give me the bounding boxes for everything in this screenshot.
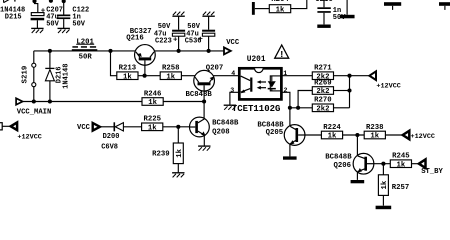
wire: VCC port to D200 <box>100 126 114 128</box>
capacitor C122 1n 50V <box>57 15 70 17</box>
wire: Q206 base to R245 <box>374 163 390 165</box>
svg-text:C6V8: C6V8 <box>101 144 118 152</box>
U201 phototransistor (left side) <box>250 78 252 92</box>
wire: R270 row <box>290 107 312 109</box>
wire: Q205 emitter to ground <box>289 144 291 156</box>
wire: U201 pin 1 to R271 <box>281 75 312 77</box>
svg-text:R257: R257 <box>392 184 410 192</box>
wire: terminal to R264 <box>255 8 269 10</box>
ground (Q208) <box>198 145 210 147</box>
svg-text:Q208: Q208 <box>212 129 230 137</box>
svg-text:R239: R239 <box>152 151 170 159</box>
wire: right vertical R271-R269-R270 <box>349 76 351 108</box>
svg-text:1k: 1k <box>176 148 184 157</box>
svg-text:1k: 1k <box>397 161 406 169</box>
node: Q207 base / R246 / Q208 collector <box>202 99 206 103</box>
svg-text:1k: 1k <box>148 99 157 107</box>
terminal bar (left of R264) <box>252 2 255 15</box>
resistor R245 <box>390 160 411 168</box>
svg-text:D215: D215 <box>5 14 22 22</box>
ground (U201 pin 3) <box>224 104 236 106</box>
transistor Q206 BC848B (NPN, mirrored) <box>353 153 374 174</box>
ground (C207) <box>31 27 43 29</box>
ground above C223 <box>172 15 184 17</box>
wire: R271 to +12VCC port <box>334 75 370 77</box>
ground (R239) <box>172 172 184 174</box>
node: Q206 base / R245 / R257 <box>381 162 385 166</box>
svg-text:R246: R246 <box>144 90 162 98</box>
svg-text:S219: S219 <box>22 66 30 84</box>
svg-text:1k: 1k <box>276 6 285 14</box>
svg-text:+: + <box>173 36 178 44</box>
wire: rail node down to R213 <box>111 51 117 76</box>
svg-text:R269: R269 <box>314 79 332 87</box>
ground (top right 2) <box>439 2 450 6</box>
resistor R213 <box>117 72 138 80</box>
wire: R245 to ST_BY port <box>412 163 419 165</box>
svg-text:2k2: 2k2 <box>316 105 329 113</box>
wire: U201 pin 2 down <box>281 92 290 126</box>
wire: R258 to Q207 collector <box>181 75 195 77</box>
warning symbol (triangle with !) <box>275 45 289 58</box>
svg-text:+12VCC: +12VCC <box>17 133 41 141</box>
wire: R246 to Q207 base node <box>163 101 204 103</box>
wire: Q216 collector to VCC caps rail <box>154 50 224 52</box>
svg-text:1k: 1k <box>166 73 175 81</box>
svg-text:BC848B: BC848B <box>186 91 213 99</box>
capacitor C536 47u 50V (electrolytic) <box>208 36 210 51</box>
node: top supply junction dots <box>32 0 36 3</box>
wire: R238 to +12VCC port <box>385 134 402 136</box>
jumper S219 <box>33 51 35 63</box>
svg-text:50V: 50V <box>46 20 59 28</box>
svg-text:+12VCC: +12VCC <box>411 133 435 141</box>
svg-text:C536: C536 <box>185 37 202 45</box>
svg-text:1k: 1k <box>328 133 337 141</box>
resistor R269 <box>312 87 333 95</box>
transistor Q208 BC848B (NPN) <box>190 117 210 137</box>
wire: Q206 emitter to ground <box>356 172 358 180</box>
ground (R257) <box>376 206 392 210</box>
svg-text:1k: 1k <box>370 133 379 141</box>
svg-text:50V: 50V <box>72 20 85 28</box>
svg-text:R264: R264 <box>271 0 289 4</box>
capacitor C223 47u 50V (electrolytic) <box>178 36 180 51</box>
wire: node down to Q206 collector <box>356 135 358 155</box>
wire: R213 to R258 <box>138 75 160 77</box>
wire: R225 to Q208 base <box>163 126 190 128</box>
svg-text:R245: R245 <box>392 153 410 161</box>
svg-text:R271: R271 <box>314 65 332 73</box>
wire: Q207 emitter to U201 pin 4 <box>213 75 239 77</box>
svg-text:1k: 1k <box>381 180 389 189</box>
port +12VCC (left, output) <box>0 123 2 130</box>
port +12VCC (right top) <box>369 71 376 80</box>
resistor R264 1k (label cut off) <box>269 5 290 13</box>
wire: Q208 emitter to ground <box>203 135 205 146</box>
resistor R225 <box>142 123 163 131</box>
svg-text:R270: R270 <box>314 97 332 105</box>
ground (top, bar style with stem) <box>346 0 348 15</box>
svg-text:2k2: 2k2 <box>316 88 329 96</box>
svg-text:VCC: VCC <box>77 124 91 132</box>
wire: R269 left leg <box>298 91 312 108</box>
svg-text:BC848B: BC848B <box>325 154 352 162</box>
port VCC (output of rail) <box>224 47 231 54</box>
wire: VCC_MAIN rail <box>23 101 142 103</box>
node: R224/R238/Q206 <box>355 133 359 137</box>
svg-text:1k: 1k <box>148 124 157 132</box>
wire: D200 to R225 <box>123 126 141 128</box>
port VCC_MAIN (input) <box>16 98 23 105</box>
svg-text:L201: L201 <box>76 39 94 47</box>
svg-text:1N4148: 1N4148 <box>63 64 71 89</box>
wire: R269 right to vertical <box>334 90 350 92</box>
node on VCC rail (to R213) <box>108 49 112 53</box>
wire: Q207 base / Q208 collector vertical <box>203 85 205 119</box>
wire: U201 pin 3 to ground <box>230 92 239 105</box>
wire: Q216 base down to R213/R258 node <box>144 60 146 75</box>
svg-text:3: 3 <box>230 87 234 94</box>
ground (Q205) <box>283 156 297 159</box>
svg-text:Q205: Q205 <box>266 129 284 137</box>
diode D215 (partial, cut off at top edge) <box>3 0 5 3</box>
svg-text:Q206: Q206 <box>334 162 352 170</box>
wire: R224 to R238 <box>343 134 365 136</box>
resistor R271 <box>312 72 333 80</box>
ground (top right 1) <box>384 2 401 6</box>
port +12VCC (right mid) <box>403 131 410 139</box>
resistor R258 <box>160 72 181 80</box>
node: R271/R269 right <box>347 74 351 78</box>
svg-text:VCC: VCC <box>226 39 240 47</box>
svg-text:VCC_MAIN: VCC_MAIN <box>17 108 52 116</box>
U201 LED (right side) <box>270 76 280 91</box>
node: Q216 base / R213 / R258 <box>143 74 147 78</box>
wire: top node to C207 <box>35 0 38 13</box>
svg-text:ST_BY: ST_BY <box>421 168 443 176</box>
svg-text:TCET1102G: TCET1102G <box>232 104 281 114</box>
svg-text:1k: 1k <box>123 73 132 81</box>
resistor R257 1k <box>382 164 384 175</box>
ground (C216) <box>317 25 330 28</box>
svg-text:D200: D200 <box>103 133 120 141</box>
svg-text:4: 4 <box>231 70 235 77</box>
svg-text:!: ! <box>279 49 285 60</box>
svg-text:R213: R213 <box>119 65 137 73</box>
diode D200 C6V8 (zener) <box>114 122 116 131</box>
wire: R264 up to top edge <box>291 0 307 9</box>
svg-text:50R: 50R <box>79 54 93 62</box>
resistor R246 <box>142 98 163 106</box>
node: R225 / R239 / Q208 base <box>176 125 180 129</box>
svg-text:R225: R225 <box>143 116 161 124</box>
transistor Q205 BC848B (NPN, mirrored) <box>284 125 305 146</box>
svg-text:BC848B: BC848B <box>212 119 239 127</box>
ground (C122) <box>58 27 70 29</box>
svg-text:Q216: Q216 <box>126 35 144 43</box>
svg-text:+12VCC: +12VCC <box>376 83 400 91</box>
ground above C536 <box>202 15 214 17</box>
wire: Q205 base to R224 <box>305 134 321 136</box>
svg-text:U201: U201 <box>247 56 266 64</box>
svg-text:R258: R258 <box>162 65 180 73</box>
diode D216 1N4148 <box>48 49 52 53</box>
port ST_BY (output) <box>419 159 426 168</box>
resistor R270 <box>312 104 333 112</box>
svg-text:C223: C223 <box>155 37 172 45</box>
svg-text:R238: R238 <box>366 124 384 132</box>
ground (Q206) <box>351 180 365 183</box>
resistor R238 <box>364 131 385 139</box>
resistor R239 1k <box>177 127 179 143</box>
wire: top node to C122 <box>63 0 65 15</box>
U201 light arrows <box>260 81 266 83</box>
wire: VCC rail (S219 top to Q216 emitter) <box>34 50 136 52</box>
optocoupler U201 TCET1102G body <box>239 68 281 99</box>
svg-text:R224: R224 <box>323 124 341 132</box>
resistor R224 <box>321 131 342 139</box>
